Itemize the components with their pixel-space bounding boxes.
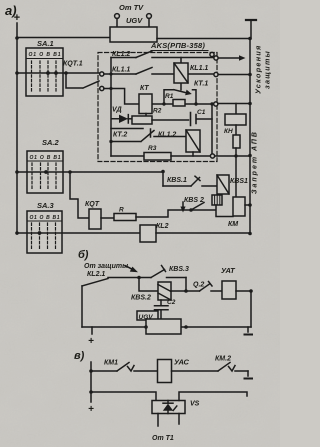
terminal circle AKS in upper	[100, 72, 104, 76]
wire KM to rail	[245, 204, 250, 206]
svg-text:УАС: УАС	[174, 358, 190, 367]
diode VD	[119, 115, 132, 123]
svg-text:КМ.2: КМ.2	[215, 356, 231, 363]
wire KBS3 corner down	[185, 278, 187, 292]
svg-text:КL2.1: КL2.1	[87, 271, 105, 278]
terminal circle AKS in lower	[100, 86, 104, 90]
node УАТ out	[249, 289, 253, 293]
wire arrow from protection	[125, 266, 138, 273]
svg-text:КL1.1: КL1.1	[112, 67, 130, 74]
contact KBS2 with arrow	[180, 202, 233, 217]
wire KT.1 bypass	[164, 90, 196, 104]
relay coil KQT	[89, 209, 101, 229]
relay УАС	[158, 360, 172, 383]
label box UGV small	[137, 311, 158, 321]
thyristor VS box	[152, 401, 185, 414]
node inner vertical VD row	[109, 87, 112, 90]
contact KL2.1	[82, 278, 139, 287]
minus tick b rail	[245, 327, 253, 335]
svg-text:R2: R2	[153, 108, 162, 115]
svg-text:От Т1: От Т1	[152, 435, 174, 442]
node rail-KM	[248, 203, 252, 207]
svg-text:КМ: КМ	[228, 221, 238, 228]
relay coil KL1.1	[174, 58, 188, 90]
svg-text:О1 О В В1: О1 О В В1	[30, 155, 61, 161]
wire KT row	[111, 89, 210, 105]
resistor R	[114, 214, 136, 221]
node KM top wire	[235, 155, 237, 157]
wire coil branch	[139, 278, 158, 292]
wire top rail right	[157, 38, 250, 40]
wire b left vertical	[81, 286, 83, 327]
node v bus KM1	[89, 369, 93, 373]
svg-text:R3: R3	[148, 145, 157, 152]
terminal circle AKS top	[210, 52, 214, 57]
wire KL1.1 row	[104, 73, 214, 75]
svg-text:Запрет АПВ: Запрет АПВ	[252, 130, 259, 194]
node R1 loop left	[162, 102, 165, 105]
svg-text:КL1.1: КL1.1	[190, 65, 208, 72]
node KBS2 out	[184, 289, 188, 293]
wire R3 row left	[111, 155, 144, 157]
transformer unit UGV terminals	[115, 14, 152, 27]
wire VS row right	[179, 392, 247, 401]
label Ускорения защиты (vertical)	[254, 44, 272, 94]
svg-text:КМ1: КМ1	[104, 360, 118, 367]
terminal circle KH out	[214, 102, 218, 106]
rectifier block UGV box	[110, 27, 157, 42]
relay coil KBS1	[217, 175, 229, 194]
contact KT.2	[111, 129, 154, 142]
contact KL1.2	[136, 51, 152, 58]
svg-text:От TV: От TV	[119, 3, 144, 12]
relay coil KL2	[140, 225, 156, 242]
svg-text:в): в)	[74, 350, 85, 362]
wire top rail left	[17, 37, 110, 39]
svg-text:б): б)	[78, 249, 89, 261]
svg-text:От защиты: От защиты	[84, 263, 128, 270]
relay coil KBS.2	[158, 282, 171, 300]
contact KM.2	[172, 363, 249, 372]
contact KBS.3	[139, 266, 186, 278]
wire R3 out to rail	[215, 155, 250, 157]
svg-text:R: R	[119, 207, 124, 214]
node rail-R3row	[248, 154, 252, 158]
coil KBS2 hatched element	[212, 195, 222, 205]
node b top junction	[137, 276, 141, 280]
relay coil KH string	[225, 104, 246, 198]
wire KQT to R	[101, 217, 114, 219]
wire VS row left	[91, 392, 156, 401]
svg-text:УАТ: УАТ	[221, 266, 236, 275]
resistor R1	[173, 100, 185, 107]
svg-text:SA.3: SA.3	[37, 201, 55, 210]
node bus-SA3	[15, 231, 19, 235]
wire coil out	[171, 290, 186, 292]
svg-text:КТ: КТ	[140, 85, 149, 92]
node inner vertical row2	[109, 72, 112, 75]
node KH bottom	[234, 154, 237, 157]
svg-text:AKS(РПВ-358): AKS(РПВ-358)	[150, 41, 205, 50]
switch block SA3	[27, 201, 62, 253]
terminal circle R3 out	[210, 154, 214, 158]
node SA2 branch KQT	[68, 170, 72, 174]
wire R2 to C1	[152, 119, 189, 121]
wire mid vertical	[211, 104, 213, 154]
wire R3 row right	[171, 155, 210, 157]
svg-text:С1: С1	[197, 109, 206, 116]
wire right rail	[249, 39, 251, 234]
svg-text:Q.2: Q.2	[193, 282, 204, 289]
svg-text:SA.2: SA.2	[42, 138, 60, 147]
svg-text:+: +	[88, 336, 94, 347]
wire KH row out	[218, 103, 250, 105]
plus tick b rail	[88, 327, 94, 347]
node rail-KHrow	[248, 102, 252, 106]
wire b bottom rail	[82, 326, 251, 328]
wire VS bottom stubs	[158, 414, 179, 427]
svg-text:КBS.2: КBS.2	[131, 295, 151, 302]
svg-text:SA.1: SA.1	[37, 39, 54, 48]
svg-text:+: +	[88, 404, 94, 415]
node KBS vertical top	[161, 170, 165, 174]
wire VD row entry	[104, 58, 119, 157]
svg-text:КBS.1: КBS.1	[167, 177, 187, 184]
relay coil KT	[139, 94, 152, 119]
wire KL2 to rail	[156, 232, 250, 234]
svg-text:КТ.1: КТ.1	[194, 81, 208, 88]
node rail-bottom	[248, 232, 252, 236]
contact KL1.1	[136, 68, 152, 75]
label AKS (РПВ-358)	[150, 41, 208, 51]
terminal bar top right	[246, 20, 256, 38]
svg-text:КQТ: КQТ	[85, 201, 100, 208]
capacitor C1	[191, 113, 213, 126]
svg-text:КBS.3: КBS.3	[169, 266, 189, 273]
contact Q.2	[186, 282, 222, 292]
svg-text:+: +	[14, 12, 21, 24]
node KT2 branch	[109, 140, 112, 143]
node bus-SA2	[15, 170, 19, 174]
terminal circle KL1.1 out	[214, 72, 218, 76]
svg-text:UGV: UGV	[126, 16, 143, 25]
rectifier UGV b box	[146, 319, 181, 334]
node mid vertical top	[210, 102, 213, 105]
minus tick v row	[245, 371, 253, 379]
node rail-box right	[184, 325, 188, 329]
node R1 loop right	[194, 102, 197, 105]
svg-text:О1 О В В1: О1 О В В1	[30, 215, 60, 221]
svg-text:КBS 2: КBS 2	[184, 197, 204, 204]
terminal circle KL1.2 out	[214, 56, 218, 60]
contact KQT.1	[64, 71, 99, 88]
svg-text:Ускорения: Ускорения	[254, 44, 263, 94]
switch block SA1	[26, 39, 63, 96]
wire УАТ to corner	[236, 291, 251, 327]
relay УАТ	[222, 281, 236, 299]
svg-text:КBS1: КBS1	[230, 178, 248, 185]
contact KM1	[91, 363, 158, 372]
wire KT2 to KL12 coil	[154, 136, 186, 138]
svg-text:VS: VS	[190, 401, 200, 408]
switch block SA2	[27, 138, 63, 193]
wire v left bus	[90, 362, 92, 402]
wire jog to KQT	[70, 172, 89, 218]
contact KT.1 with arrow	[174, 90, 192, 96]
svg-text:КQТ.1: КQТ.1	[63, 61, 83, 68]
svg-text:VД: VД	[112, 107, 122, 114]
capacitor C2	[155, 300, 169, 319]
svg-text:КL1.2: КL1.2	[158, 132, 176, 139]
svg-text:О1 О В В1: О1 О В В1	[29, 52, 61, 58]
wire KBS vertical	[162, 172, 164, 187]
wire SA1 row	[17, 72, 99, 74]
dashed box AKS	[98, 53, 217, 162]
wire SA2 row	[17, 171, 163, 173]
svg-text:С2: С2	[167, 299, 176, 306]
node bus-top-rail	[15, 36, 19, 40]
node bus-SA1	[15, 71, 19, 75]
wire SA3 row	[17, 232, 140, 234]
wire R to KBS2	[136, 210, 191, 217]
wire KL1.1 out to rail	[218, 74, 250, 76]
node rail-KL11row	[248, 73, 252, 77]
relay coil KL1.2	[186, 130, 200, 156]
resistor R3	[144, 153, 171, 161]
svg-text:защиты: защиты	[263, 50, 272, 89]
node rail-top	[248, 37, 252, 41]
svg-text:КL2: КL2	[156, 223, 169, 230]
svg-text:КТ.2: КТ.2	[113, 132, 127, 139]
resistor R2	[132, 116, 152, 124]
contactor coil KM	[233, 197, 245, 216]
node rail-box left	[144, 325, 148, 329]
svg-text:КН: КН	[224, 128, 233, 135]
wire KL1.2 row	[111, 57, 214, 59]
wire arrow acceleration out	[219, 55, 246, 60]
contact KBS.1	[163, 176, 217, 186]
node v bus VS	[89, 390, 93, 394]
wire left plus bus	[16, 23, 18, 234]
